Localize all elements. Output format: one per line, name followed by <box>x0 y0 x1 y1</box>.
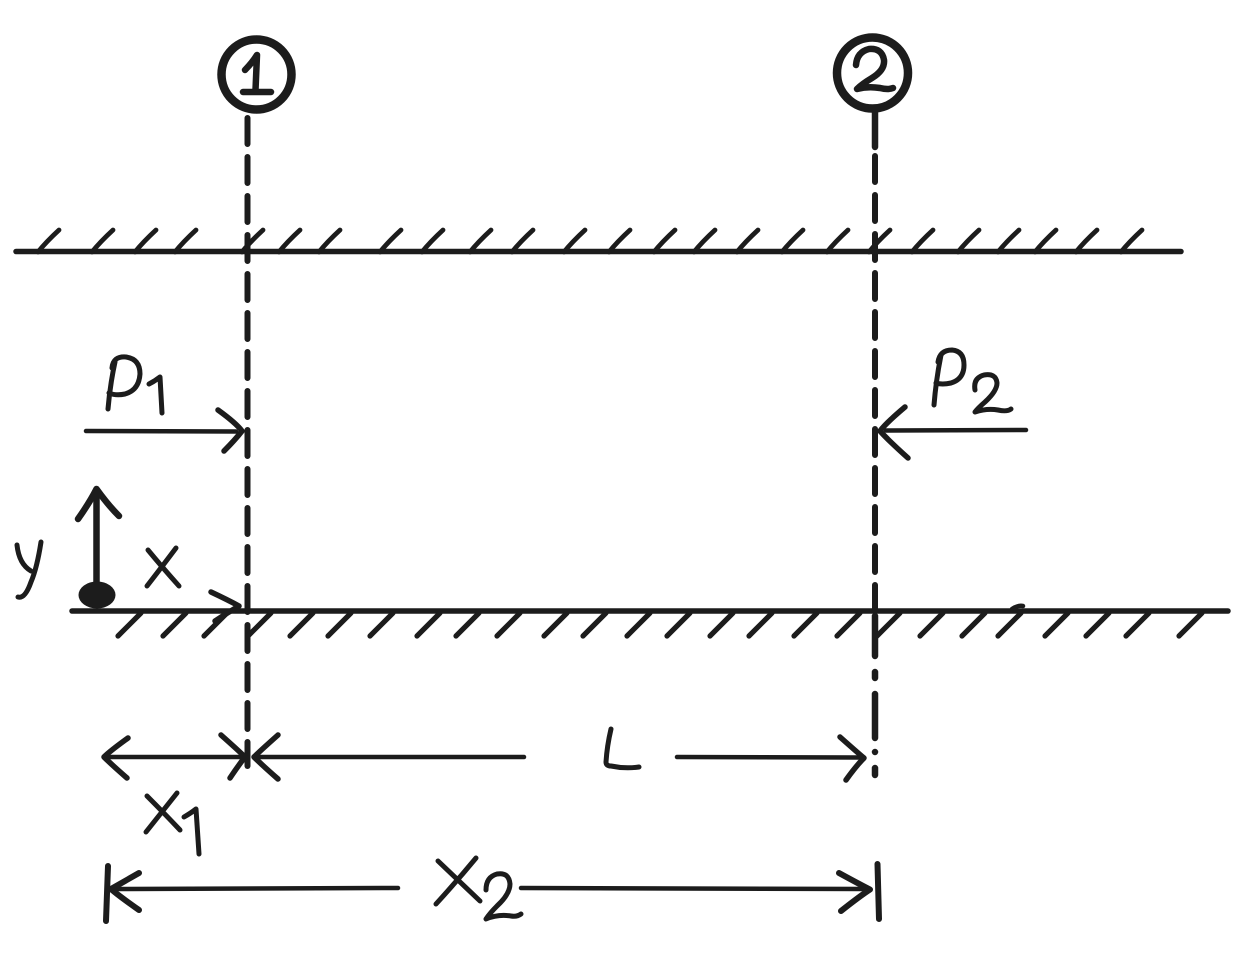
dimension arrow x1 (from origin line to station 1) <box>104 735 245 778</box>
bottom wall hatching <box>118 613 1202 636</box>
dimension arrow x2 (origin to station 2) <box>106 864 879 921</box>
pressure arrow P2 (points left into station 2) <box>880 407 1026 458</box>
top wall hatching <box>38 230 1142 252</box>
label x1 <box>146 793 199 854</box>
label x (axis) <box>147 548 179 586</box>
digit 2 inside circle 2 <box>856 49 893 89</box>
dimension arrow L (station 1 to station 2) <box>254 735 864 780</box>
bottom wall <box>72 608 1228 614</box>
label P1 <box>108 357 162 413</box>
x axis arrowhead (on bottom wall, before station 1) <box>211 592 239 621</box>
station line 2 (dashed vertical through section 2) <box>872 111 879 775</box>
origin dot <box>79 582 116 609</box>
label x2 <box>436 858 521 919</box>
y axis arrow <box>78 489 119 588</box>
top wall <box>16 249 1181 255</box>
small pen mark on bottom wall <box>1012 606 1023 609</box>
station marker circle 2 <box>837 38 908 109</box>
station line 1 (dashed vertical through section 1) <box>245 118 251 766</box>
pressure arrow P1 (points right into station 1) <box>86 410 242 451</box>
label y <box>17 542 41 597</box>
station marker circle 1 <box>222 40 292 110</box>
digit 1 inside circle 1 <box>243 55 271 92</box>
label L <box>606 729 639 768</box>
label P2 <box>934 350 1011 412</box>
